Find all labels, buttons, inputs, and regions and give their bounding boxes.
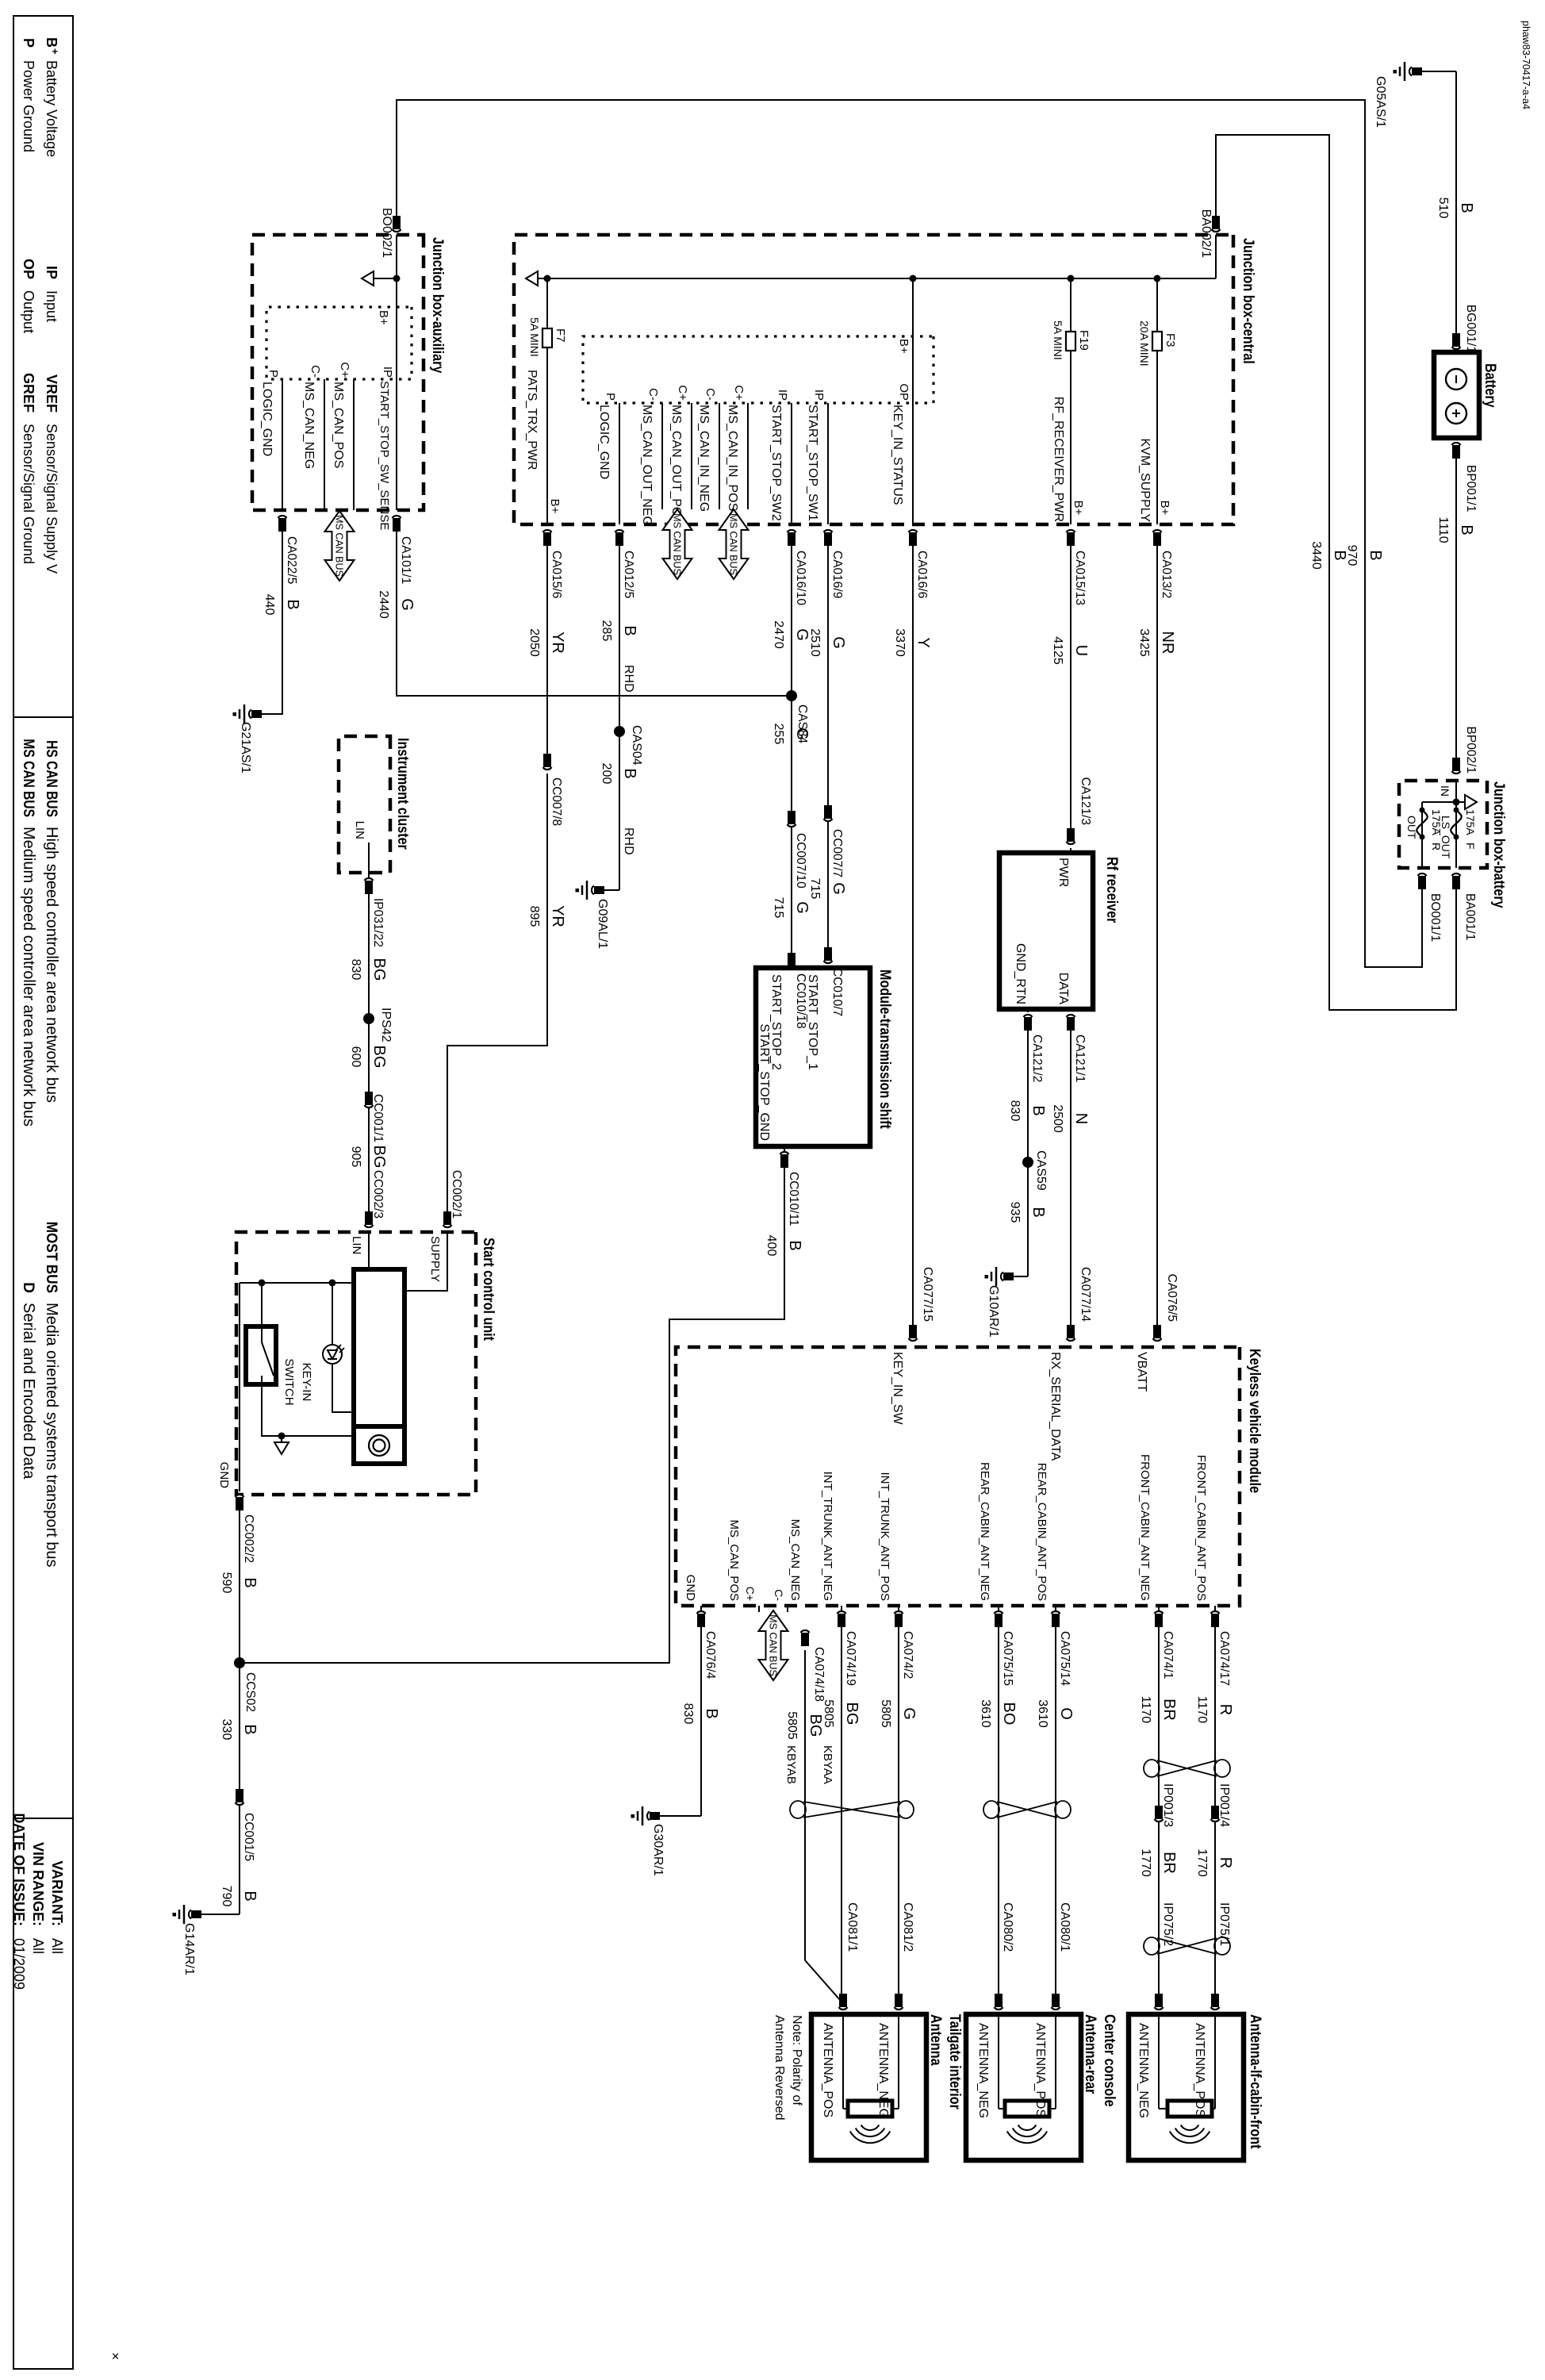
connector CC007/8 (543, 767, 552, 770)
svg-text:IP: IP (776, 390, 789, 401)
svg-text:CA101/1: CA101/1 (399, 536, 412, 584)
svg-text:R: R (1217, 1704, 1234, 1715)
ground G21AS/1 (251, 710, 262, 718)
svg-text:INT_TRUNK_ANT_POS: INT_TRUNK_ANT_POS (878, 1472, 891, 1601)
svg-text:KEY_IN_STATUS: KEY_IN_STATUS (891, 405, 904, 505)
svg-text:PATS_TRX_PWR: PATS_TRX_PWR (525, 370, 539, 470)
feed (396, 235, 397, 307)
connector BO001/1 (1418, 873, 1427, 876)
arrow internal (281, 1436, 282, 1444)
svg-text:Tailgate interior: Tailgate interior (947, 2014, 964, 2109)
connector CC002/2 (236, 1495, 244, 1497)
svg-text:CA121/2: CA121/2 (1030, 1035, 1044, 1082)
svg-text:RF_RECEIVER_PWR: RF_RECEIVER_PWR (1052, 397, 1065, 522)
connector CC001/1 (365, 1105, 374, 1107)
svg-text:REAR_CABIN_ANT_POS: REAR_CABIN_ANT_POS (1035, 1463, 1049, 1601)
svg-text:KBYAB: KBYAB (784, 1745, 798, 1784)
connector BP002/1 (1452, 771, 1461, 773)
svg-text:B+: B+ (1072, 501, 1085, 516)
svg-text:B+: B+ (548, 499, 562, 514)
svg-text:BG001/1: BG001/1 (1464, 305, 1478, 353)
svg-text:Input: Input (44, 290, 59, 322)
svg-text:B: B (1029, 1105, 1047, 1115)
twist rear pair (1055, 1801, 1071, 1818)
node F19 (1068, 275, 1075, 282)
svg-text:MS_CAN_OUT_NEG: MS_CAN_OUT_NEG (640, 405, 654, 526)
svg-text:MS CAN BUS: MS CAN BUS (334, 515, 345, 577)
wire G 2440 (397, 532, 792, 696)
svg-text:B: B (44, 37, 59, 48)
kvm ms_can stubs (787, 1606, 788, 1612)
connector BO002/1 (393, 229, 401, 232)
svg-text:CA081/2: CA081/2 (901, 1902, 914, 1952)
svg-text:FRONT_CABIN_ANT_POS: FRONT_CABIN_ANT_POS (1194, 1455, 1208, 1601)
svg-text:175A: 175A (1430, 809, 1443, 835)
svg-text:790: 790 (220, 1886, 233, 1907)
svg-text:KVM_SUPPLY: KVM_SUPPLY (1138, 438, 1152, 522)
svg-text:1170: 1170 (1139, 1696, 1152, 1724)
antenna element (999, 2108, 1005, 2109)
svg-text:5A MINI: 5A MINI (528, 317, 541, 357)
svg-text:B: B (284, 599, 301, 609)
svg-text:OP: OP (21, 259, 36, 279)
LIN into unit (368, 1231, 370, 1269)
svg-text:C+: C+ (338, 362, 351, 378)
svg-text:Battery Voltage: Battery Voltage (44, 60, 59, 157)
svg-text:IPS42: IPS42 (379, 1008, 393, 1042)
connector CA016/6 (909, 530, 918, 532)
svg-text:200: 200 (600, 763, 613, 785)
svg-text:2470: 2470 (772, 620, 785, 649)
node led branch (329, 1280, 336, 1287)
ground G09AL/1 (604, 889, 619, 891)
svg-text:Junction box-battery: Junction box-battery (1491, 781, 1509, 908)
connector IP001/4 (1211, 1819, 1220, 1821)
svg-text:C-: C- (309, 365, 322, 378)
rf receiver (999, 853, 1093, 1009)
dotted internal module aux (266, 307, 412, 379)
svg-text:All: All (30, 1938, 46, 1954)
node battery box feed (1453, 799, 1460, 806)
svg-text:CC007/10: CC007/10 (794, 833, 807, 889)
start unit internal block (354, 1269, 404, 1464)
svg-text:CC010/18: CC010/18 (794, 973, 807, 1029)
svg-text:B: B (1029, 1207, 1047, 1217)
arrow continuation up (1456, 801, 1466, 803)
connector IP031/22 (365, 878, 374, 881)
svg-text:ANTENNA_NEG: ANTENNA_NEG (976, 2023, 990, 2118)
aux logic_gnd (282, 379, 283, 510)
svg-text:Rf receiver: Rf receiver (1104, 857, 1121, 923)
svg-text:BP001/1: BP001/1 (1464, 465, 1478, 512)
svg-text:MS CAN BUS: MS CAN BUS (672, 513, 683, 575)
svg-text:BP002/1: BP002/1 (1464, 727, 1478, 773)
svg-text:BG: BG (370, 1046, 388, 1069)
svg-text:P: P (266, 370, 280, 378)
svg-text:OP: OP (897, 383, 911, 401)
svg-text:BG: BG (807, 1714, 824, 1737)
svg-text:C+: C+ (744, 1587, 757, 1601)
svg-text:MS CAN BUS: MS CAN BUS (768, 1614, 779, 1676)
keyless vehicle module (676, 1347, 1240, 1606)
svg-text:Antenna: Antenna (928, 2014, 945, 2066)
svg-text:START_STOP_SW1: START_STOP_SW1 (806, 405, 819, 521)
connector BG001/1 (1452, 347, 1461, 349)
connector CC010/7 (824, 961, 833, 963)
svg-text:Power Ground: Power Ground (21, 60, 36, 152)
svg-text:Instrument cluster: Instrument cluster (395, 738, 412, 850)
junction box-battery (1399, 781, 1487, 868)
svg-text:20A MINI: 20A MINI (1138, 321, 1151, 367)
connector CC007/7 (824, 819, 833, 821)
svg-text:C-: C- (772, 1589, 785, 1601)
svg-text:CA121/1: CA121/1 (1073, 1035, 1087, 1082)
fuse 175A F (1455, 802, 1457, 868)
arrow continuation down (373, 278, 397, 279)
svg-text:715: 715 (772, 897, 785, 919)
svg-text:CA081/1: CA081/1 (845, 1902, 859, 1952)
svg-text:MS_CAN_POS: MS_CAN_POS (727, 1519, 741, 1601)
wire NR 3425 (1156, 546, 1158, 1334)
svg-text:IP001/3: IP001/3 (1161, 1783, 1175, 1827)
start_stop_sw2 line (791, 403, 792, 524)
svg-text:CA074/18: CA074/18 (812, 1647, 826, 1702)
svg-text:CC007/7: CC007/7 (830, 829, 844, 877)
svg-text:Antenna-rear: Antenna-rear (1083, 2014, 1100, 2094)
node F3 (1154, 275, 1161, 282)
svg-text:BR: BR (1160, 1699, 1178, 1721)
svg-text:B: B (621, 625, 638, 635)
antenna-lf-cabin-front (1129, 2014, 1244, 2160)
svg-text:2500: 2500 (1051, 1104, 1064, 1133)
svg-text:YR: YR (549, 631, 566, 654)
wire battery positive B 1110 (1455, 459, 1457, 763)
svg-text:IP075/1: IP075/1 (1217, 1902, 1231, 1946)
connector CA080/2 (995, 2007, 1003, 2010)
svg-text:C+: C+ (676, 385, 689, 401)
center console antenna-rear (966, 2014, 1081, 2160)
svg-text:CC002/1: CC002/1 (450, 1170, 463, 1219)
key-in switch (261, 1283, 263, 1326)
svg-text:Sensor/Signal Supply V: Sensor/Signal Supply V (44, 424, 59, 574)
svg-text:3425: 3425 (1137, 628, 1151, 657)
start_stop_sw_sense line (396, 307, 397, 510)
svg-text:G: G (830, 636, 847, 649)
svg-text:KEY_IN_SW: KEY_IN_SW (891, 1352, 904, 1425)
svg-text:Medium speed controller area n: Medium speed controller area network bus (20, 827, 37, 1127)
svg-text:B+: B+ (377, 310, 390, 325)
svg-text:ANTENNA_NEG: ANTENNA_NEG (1137, 2023, 1150, 2118)
svg-text:1170: 1170 (1195, 1696, 1209, 1724)
svg-text:U: U (1072, 645, 1090, 656)
connector CA074/19 (838, 1611, 846, 1614)
svg-text:P: P (604, 393, 617, 401)
svg-text:IP: IP (812, 390, 826, 401)
connector BA001/1 (1452, 873, 1461, 876)
svg-text:B+: B+ (1158, 501, 1171, 516)
wire B 830 (1027, 1031, 1029, 1276)
wire B 3440 (1216, 135, 1456, 1010)
svg-text:BA002/1: BA002/1 (1199, 209, 1213, 258)
start_stop_gnd exit (784, 1146, 785, 1166)
gnd line (239, 1283, 240, 1491)
pats_trx_pwr line F7 (546, 278, 548, 524)
node aux feed (393, 275, 401, 282)
svg-text:715: 715 (808, 878, 822, 900)
svg-text:G: G (793, 727, 811, 740)
connector CC002/1 (443, 1225, 452, 1227)
key_in_status line (912, 278, 914, 524)
svg-text:G21AS/1: G21AS/1 (239, 722, 252, 773)
wire G 2470 (791, 546, 792, 957)
antenna element (843, 2108, 848, 2109)
svg-text:phaw83-70417-a-a4: phaw83-70417-a-a4 (1520, 21, 1532, 109)
svg-text:BO: BO (1000, 1702, 1018, 1725)
svg-text:LIN: LIN (350, 1236, 363, 1254)
splice CAS59 (1022, 1157, 1033, 1168)
svg-text:IP: IP (44, 266, 59, 279)
svg-text:CA075/15: CA075/15 (1001, 1631, 1014, 1686)
svg-text:MS_CAN_IN_NEG: MS_CAN_IN_NEG (697, 405, 711, 512)
svg-text:G30AR/1: G30AR/1 (651, 1824, 665, 1876)
splice CAS04 (614, 726, 625, 737)
node F7 (544, 275, 551, 282)
connector IP075/1 (1211, 2007, 1220, 2010)
connector BA002/1 (1212, 229, 1221, 232)
svg-text:4125: 4125 (1051, 636, 1064, 665)
svg-text:HS CAN BUS: HS CAN BUS (44, 740, 61, 817)
connector CA077/14 (1067, 1338, 1075, 1341)
svg-text:830: 830 (681, 1703, 695, 1725)
svg-text:01/2009: 01/2009 (11, 1938, 27, 1990)
svg-text:1770: 1770 (1195, 1848, 1209, 1877)
module-transmission shift (756, 968, 870, 1146)
svg-text:Start control unit: Start control unit (481, 1238, 498, 1341)
svg-text:600: 600 (349, 1046, 362, 1068)
svg-text:Center console: Center console (1102, 2014, 1119, 2107)
svg-text:START_STOP_1: START_STOP_1 (806, 974, 819, 1070)
connector CA081/1 (839, 2007, 848, 2010)
fuse F19 5A MINI (1070, 278, 1072, 524)
connector CC010/18 (788, 966, 796, 969)
svg-text:Antenna-lf-cabin-front: Antenna-lf-cabin-front (1248, 2014, 1265, 2149)
svg-text:Keyless vehicle module: Keyless vehicle module (1247, 1349, 1264, 1493)
svg-text:F3: F3 (1164, 333, 1177, 347)
svg-text:Module-transmission shift: Module-transmission shift (877, 969, 895, 1129)
svg-text:3370: 3370 (893, 628, 907, 657)
svg-text:MOST BUS: MOST BUS (44, 1222, 60, 1293)
svg-text:CA075/14: CA075/14 (1058, 1631, 1072, 1686)
svg-text:Y: Y (914, 637, 932, 647)
wire YR 2050 (546, 546, 548, 755)
svg-text:C-: C- (646, 388, 660, 401)
svg-text:CA076/5: CA076/5 (1165, 1274, 1179, 1322)
svg-text:BG: BG (843, 1702, 861, 1725)
svg-text:×: × (108, 2352, 123, 2360)
supply routing (404, 1231, 447, 1291)
connector CC002/3 (365, 1225, 374, 1227)
svg-text:175A: 175A (1464, 809, 1477, 835)
wire battery negative B 510 (1455, 71, 1457, 340)
svg-text:B: B (1458, 202, 1475, 213)
connector CA012/5 (615, 530, 624, 532)
svg-text:CC002/3: CC002/3 (371, 1170, 385, 1219)
svg-text:905: 905 (349, 1146, 362, 1168)
tailgate interior antenna (811, 2014, 926, 2160)
svg-text:Serial and Encoded Data: Serial and Encoded Data (20, 1303, 37, 1480)
connector IP075/2 (1155, 2007, 1164, 2010)
svg-text:CA015/6: CA015/6 (550, 551, 563, 598)
wire B 440 (262, 532, 282, 714)
svg-text:BA001/1: BA001/1 (1463, 893, 1477, 940)
svg-text:START_STOP_GND: START_STOP_GND (757, 1023, 771, 1141)
start control unit (236, 1232, 476, 1495)
svg-text:3610: 3610 (1036, 1699, 1049, 1728)
svg-text:F7: F7 (554, 328, 567, 343)
svg-text:1110: 1110 (1436, 516, 1450, 543)
svg-text:SWITCH: SWITCH (282, 1358, 296, 1405)
svg-text:CA121/3: CA121/3 (1079, 777, 1092, 825)
svg-text:High speed controller area net: High speed controller area network bus (43, 827, 60, 1103)
svg-text:830: 830 (349, 959, 362, 981)
svg-text:MS_CAN_NEG: MS_CAN_NEG (788, 1519, 802, 1601)
svg-text:BO002/1: BO002/1 (380, 208, 393, 258)
wire B 970 (397, 100, 1422, 967)
svg-text:MS_CAN_OUT_POS: MS_CAN_OUT_POS (669, 405, 683, 525)
svg-text:510: 510 (1436, 198, 1450, 219)
svg-text:3610: 3610 (979, 1699, 992, 1728)
svg-text:DATE OF ISSUE:: DATE OF ISSUE: (11, 1813, 27, 1926)
connector CA015/13 (1067, 530, 1075, 532)
junction box-auxiliary (252, 235, 424, 510)
svg-text:5805: 5805 (879, 1699, 892, 1728)
svg-text:440: 440 (263, 594, 276, 616)
wire B 400 (240, 1168, 784, 1663)
svg-text:CA074/17: CA074/17 (1217, 1631, 1231, 1686)
svg-text:NR: NR (1159, 631, 1176, 654)
svg-text:255: 255 (772, 724, 785, 745)
svg-text:DATA: DATA (1056, 973, 1070, 1005)
led branch (332, 1283, 333, 1345)
connector CA121/2 (1024, 1015, 1033, 1017)
svg-text:P: P (21, 38, 36, 48)
svg-text:KEY-IN: KEY-IN (300, 1363, 313, 1402)
svg-text:CC010/11: CC010/11 (787, 1172, 800, 1226)
wire B 590 (239, 1511, 240, 1914)
connector CC010/11 (780, 1152, 789, 1154)
svg-text:START_STOP_SW_SENSE: START_STOP_SW_SENSE (378, 381, 391, 530)
svg-text:CA074/19: CA074/19 (844, 1631, 857, 1686)
svg-text:2050: 2050 (527, 628, 541, 657)
svg-text:B: B (703, 1708, 720, 1718)
connector CA074/1 (1155, 1611, 1164, 1614)
node key-in feed (910, 275, 917, 282)
connector CC007/10 (788, 824, 796, 827)
svg-text:CA077/14: CA077/14 (1079, 1267, 1092, 1322)
junction box-central (514, 235, 1233, 524)
svg-text:BG: BG (370, 958, 388, 981)
svg-text:GND_RTN: GND_RTN (1014, 943, 1027, 1004)
svg-text:Sensor/Signal Ground: Sensor/Signal Ground (21, 424, 36, 564)
svg-text:B: B (1458, 524, 1475, 535)
connector CA075/14 (1052, 1611, 1060, 1614)
svg-text:IN: IN (1439, 785, 1451, 797)
connector CA074/2 (895, 1611, 903, 1614)
svg-text:B: B (241, 1577, 259, 1587)
connector BP001/1 (1452, 443, 1461, 445)
svg-text:PWR: PWR (1056, 858, 1070, 887)
svg-text:G: G (398, 598, 416, 611)
svg-text:CAS04: CAS04 (630, 725, 643, 766)
svg-text:Media oriented systems transpo: Media oriented systems transport bus (43, 1303, 60, 1568)
connector CA101/1 (393, 516, 401, 518)
svg-text:CC010/7: CC010/7 (830, 968, 844, 1016)
ground G30AR/1 (660, 1815, 701, 1817)
svg-text:LOGIC_GND: LOGIC_GND (597, 405, 611, 479)
svg-text:CA022/5: CA022/5 (285, 536, 298, 584)
svg-text:KBYAA: KBYAA (821, 1745, 834, 1784)
svg-text:N: N (1072, 1113, 1090, 1124)
ms_can_out lines (691, 403, 692, 509)
svg-text:G: G (793, 901, 811, 914)
fuse F3 20A MINI (1156, 278, 1158, 524)
svg-text:B: B (241, 1891, 259, 1901)
svg-text:590: 590 (220, 1572, 233, 1594)
svg-text:LOGIC_GND: LOGIC_GND (260, 382, 274, 456)
svg-text:IP: IP (381, 367, 394, 378)
svg-text:MS_CAN_IN_POS: MS_CAN_IN_POS (726, 405, 739, 511)
ms_can_in lines (747, 403, 749, 509)
svg-text:C-: C- (703, 388, 717, 401)
svg-text:MS_CAN_NEG: MS_CAN_NEG (302, 382, 316, 469)
svg-text:B: B (241, 1724, 259, 1734)
svg-text:CAS59: CAS59 (1034, 1150, 1048, 1191)
svg-text:5A MINI: 5A MINI (1052, 321, 1064, 360)
node arrow ref (278, 1433, 286, 1440)
svg-text:CA012/5: CA012/5 (622, 551, 635, 598)
svg-text:G05AS/1: G05AS/1 (1374, 76, 1387, 128)
wire G 2510 (827, 546, 829, 951)
ground G10AR/1 (1014, 1276, 1028, 1277)
svg-text:5805: 5805 (785, 1711, 799, 1740)
svg-text:R: R (1217, 1857, 1234, 1868)
internal wiring (240, 1282, 354, 1284)
svg-text:CA076/4: CA076/4 (703, 1631, 717, 1679)
bus feed (1215, 235, 1217, 278)
svg-text:YR: YR (549, 905, 566, 927)
svg-text:CA016/10: CA016/10 (794, 551, 807, 605)
connector CA076/4 (697, 1611, 706, 1614)
svg-text:ANTENNA_POS: ANTENNA_POS (1193, 2023, 1206, 2117)
arrow continuation down (537, 278, 547, 279)
legend strip (13, 16, 73, 2369)
antenna element (1159, 2108, 1167, 2109)
svg-text:MS_CAN_POS: MS_CAN_POS (332, 382, 345, 468)
battery (1434, 352, 1479, 438)
svg-text:G09AL/1: G09AL/1 (596, 899, 609, 949)
svg-text:Output: Output (21, 290, 36, 333)
svg-text:CA077/15: CA077/15 (921, 1267, 934, 1322)
wire Y 3370 (912, 546, 914, 1334)
connector CA080/1 (1052, 2007, 1060, 2010)
svg-text:RX_SERIAL_DATA: RX_SERIAL_DATA (1049, 1352, 1062, 1461)
ground G05AS/1 (1422, 71, 1456, 72)
int trunk wire CA074/18 (801, 1630, 810, 1633)
svg-text:ANTENNA_NEG: ANTENNA_NEG (876, 2023, 890, 2118)
connector IP001/3 (1155, 1819, 1164, 1821)
svg-text:CA080/2: CA080/2 (1001, 1902, 1014, 1952)
svg-text:CA080/1: CA080/1 (1058, 1902, 1072, 1952)
